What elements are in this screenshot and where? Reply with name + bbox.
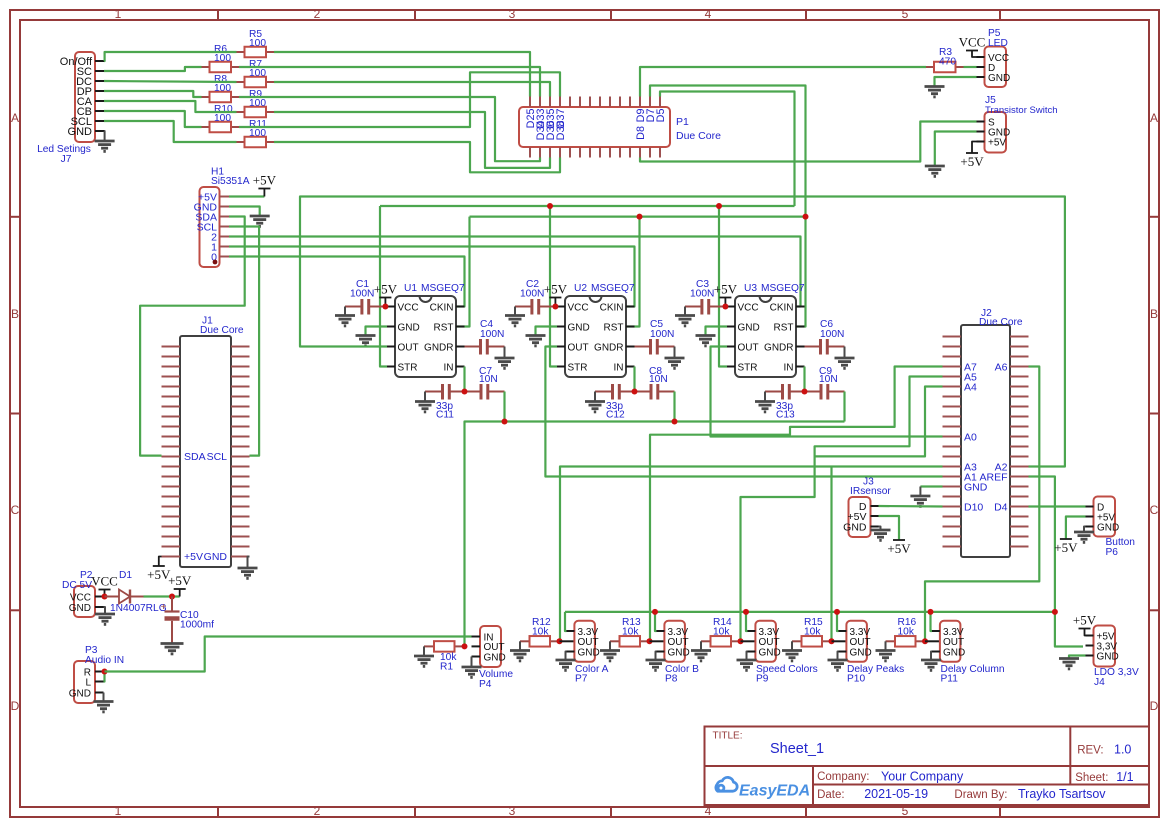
ground J7 GND bbox=[103, 131, 106, 141]
resistor R1 10k bbox=[424, 645, 434, 647]
wire CB to R10 bbox=[104, 111, 202, 127]
svg-text:RST: RST bbox=[604, 322, 624, 333]
wire STR net bbox=[380, 205, 795, 207]
wire R8 to P1 D34 bbox=[239, 97, 540, 161]
svg-text:Company:: Company: bbox=[817, 771, 869, 783]
svg-text:REV:: REV: bbox=[1077, 745, 1103, 757]
power flag +5V at J4 bbox=[1085, 629, 1086, 636]
resistor R11 100 bbox=[237, 141, 245, 143]
svg-text:+5V: +5V bbox=[988, 137, 1006, 148]
svg-text:R1: R1 bbox=[440, 662, 453, 673]
svg-text:Sheet_1: Sheet_1 bbox=[770, 741, 824, 757]
power flag +5V at J1 bbox=[159, 557, 162, 567]
svg-text:IN: IN bbox=[614, 362, 624, 373]
svg-text:U2: U2 bbox=[574, 283, 587, 294]
junction U3 IN coupling bbox=[802, 389, 808, 395]
connector P3 Audio IN bbox=[74, 661, 95, 703]
ground at J1 bbox=[248, 557, 250, 568]
svg-text:1: 1 bbox=[115, 804, 122, 818]
resistor R5 100 bbox=[237, 51, 245, 53]
svg-text:Due Core: Due Core bbox=[200, 325, 244, 336]
capacitor C2 100N bbox=[515, 306, 531, 308]
wire DC to R7 bbox=[104, 81, 237, 82]
ground at J4 bbox=[1059, 657, 1079, 660]
wire R10 to P1 D37 bbox=[239, 72, 560, 127]
junction P4 OUT bbox=[462, 643, 468, 649]
svg-text:B: B bbox=[11, 307, 19, 321]
svg-text:100: 100 bbox=[249, 68, 266, 79]
svg-text:STR: STR bbox=[568, 362, 588, 373]
svg-text:P8: P8 bbox=[665, 674, 678, 685]
svg-text:100N: 100N bbox=[690, 289, 714, 300]
svg-text:3: 3 bbox=[509, 804, 516, 818]
svg-text:Due Core: Due Core bbox=[979, 317, 1023, 328]
wire P1 D5 to STR net bbox=[660, 92, 795, 207]
wire H1 pin0 to U1 CKIN bbox=[229, 257, 465, 307]
wire P6 +5V to flag bbox=[1066, 517, 1086, 540]
connector J3 IRsensor bbox=[849, 497, 871, 537]
resistor R7 100 bbox=[237, 81, 245, 83]
junction U1 VCC bbox=[382, 304, 388, 310]
wire C8 to audio bus bbox=[673, 392, 675, 422]
svg-text:10k: 10k bbox=[898, 627, 915, 638]
wire SC to R6 bbox=[104, 67, 202, 71]
wire On/Off to R5 bbox=[104, 52, 237, 61]
svg-text:Date:: Date: bbox=[817, 789, 845, 801]
wire R11 to P1 D38 bbox=[274, 142, 560, 172]
resistor R15 10k bbox=[792, 640, 802, 642]
svg-text:100: 100 bbox=[214, 113, 231, 124]
resistor R8 100 bbox=[202, 96, 210, 98]
svg-text:GND: GND bbox=[1097, 651, 1119, 662]
junction P3 audio bbox=[102, 669, 108, 675]
wire P1 D9 to R3 bbox=[640, 67, 926, 97]
wire J3 GND to ground bbox=[879, 527, 881, 530]
connector J5 Transistor Switch bbox=[985, 112, 1007, 153]
resistor R6 100 bbox=[202, 66, 210, 68]
ground at J5 bbox=[925, 165, 945, 168]
connector P4 Volume bbox=[480, 626, 501, 667]
EasyEDA logo bbox=[716, 777, 737, 791]
svg-text:LED: LED bbox=[988, 38, 1008, 49]
wire H1 GND to ground bbox=[229, 207, 260, 216]
svg-text:100: 100 bbox=[249, 38, 266, 49]
svg-text:GND: GND bbox=[988, 73, 1010, 84]
connector P10 Delay Peaks bbox=[846, 621, 867, 662]
wire R3 to P5 D bbox=[964, 66, 977, 68]
svg-text:MSGEQ7: MSGEQ7 bbox=[591, 283, 635, 294]
svg-text:CKIN: CKIN bbox=[770, 302, 794, 313]
svg-text:IRsensor: IRsensor bbox=[850, 486, 891, 497]
wire R5 to P1 D25 bbox=[274, 52, 530, 97]
wire C7 to audio bus bbox=[503, 392, 505, 422]
ground at U3 GND bbox=[696, 334, 716, 337]
wire J2 A6 to P11 OUT bbox=[925, 367, 1039, 642]
wire P10 GND to ground bbox=[838, 652, 839, 660]
ground at C2 bbox=[514, 307, 516, 315]
wire U1 GND to ground bbox=[366, 327, 388, 335]
junction RST U3 bbox=[803, 214, 809, 220]
svg-text:GND: GND bbox=[738, 322, 760, 333]
junction bus C8 bbox=[672, 419, 678, 425]
svg-text:P6: P6 bbox=[1106, 547, 1119, 558]
connector P7 Color A bbox=[574, 621, 595, 662]
svg-text:1000mf: 1000mf bbox=[180, 620, 214, 631]
wire P9 3.3V to rail bbox=[746, 612, 748, 631]
svg-text:+5V: +5V bbox=[1073, 613, 1097, 628]
power flag +5V at H1 bbox=[263, 189, 265, 197]
ground at P10 bbox=[828, 659, 848, 662]
capacitor C6 100N bbox=[805, 346, 820, 348]
svg-text:C13: C13 bbox=[776, 410, 795, 421]
capacitor C10 1000mf bbox=[171, 597, 173, 612]
wire P1 D8 to J5 S bbox=[640, 122, 977, 162]
ground at P11 bbox=[921, 659, 941, 662]
wire P11 3.3V to rail bbox=[931, 612, 933, 631]
wire P8 GND to ground bbox=[656, 652, 657, 660]
ground at P5 bbox=[925, 85, 945, 88]
wire D1 to +5V node bbox=[144, 595, 180, 597]
wire J2 A4 line bbox=[815, 387, 943, 457]
svg-text:DC 5V: DC 5V bbox=[62, 580, 92, 591]
svg-text:+5V: +5V bbox=[184, 551, 203, 563]
resistor R14 10k bbox=[701, 640, 711, 642]
junction STR U2 bbox=[547, 203, 553, 209]
svg-text:D1: D1 bbox=[119, 570, 132, 581]
connector J2 Due Core bbox=[961, 325, 1010, 557]
svg-text:P1: P1 bbox=[676, 116, 689, 128]
svg-text:D5: D5 bbox=[655, 109, 667, 123]
ground at J3 bbox=[871, 529, 891, 532]
wire P3 GND to ground bbox=[103, 693, 105, 701]
capacitor C9 10N bbox=[805, 391, 821, 393]
svg-text:+5V: +5V bbox=[714, 282, 738, 297]
svg-text:3.3V: 3.3V bbox=[943, 627, 964, 638]
svg-text:Si5351A: Si5351A bbox=[211, 176, 250, 187]
wire J3 D to J2 D10 bbox=[879, 505, 943, 508]
svg-text:VCC: VCC bbox=[91, 574, 118, 589]
svg-text:100N: 100N bbox=[520, 289, 544, 300]
wire P5 GND to ground bbox=[935, 77, 977, 86]
svg-text:P7: P7 bbox=[575, 674, 588, 685]
capacitor C7 10N bbox=[465, 391, 481, 393]
svg-text:L: L bbox=[85, 677, 91, 688]
wire U2 GND to ground bbox=[536, 327, 558, 335]
svg-text:Transistor Switch: Transistor Switch bbox=[985, 105, 1058, 116]
wire P1 D7 to RST net bbox=[650, 86, 806, 217]
wire H1 SCL to J1 SCL bbox=[229, 227, 259, 456]
ground at C3 bbox=[684, 307, 686, 315]
svg-text:+5V: +5V bbox=[253, 173, 277, 188]
svg-text:GND: GND bbox=[759, 647, 781, 658]
op-chip U3 MSGEQ7 bbox=[735, 296, 796, 377]
connector P6 Button bbox=[1094, 497, 1116, 537]
connector P11 Delay Column bbox=[940, 621, 961, 662]
wire DP to R8 bbox=[104, 91, 202, 97]
ground at J2 GND bbox=[910, 495, 930, 498]
svg-text:Trayko Tsartsov: Trayko Tsartsov bbox=[1018, 787, 1106, 801]
wire CA to R9 bbox=[104, 101, 237, 112]
svg-text:OUT: OUT bbox=[568, 342, 589, 353]
svg-text:TITLE:: TITLE: bbox=[713, 731, 743, 742]
title block bbox=[705, 727, 1150, 806]
svg-text:+5V: +5V bbox=[374, 282, 398, 297]
ground at R12 bbox=[519, 641, 521, 649]
wire H1 +5V to flag bbox=[229, 195, 264, 197]
capacitor C12 33p bbox=[595, 391, 612, 393]
power flag +5V at C10 bbox=[179, 589, 181, 597]
svg-text:GND: GND bbox=[843, 521, 867, 533]
svg-text:OUT: OUT bbox=[738, 342, 759, 353]
svg-text:RST: RST bbox=[434, 322, 454, 333]
svg-text:+5V: +5V bbox=[544, 282, 568, 297]
svg-text:470: 470 bbox=[939, 57, 956, 68]
resistor R10 100 bbox=[202, 126, 210, 128]
svg-text:SDA: SDA bbox=[184, 451, 206, 463]
svg-text:10k: 10k bbox=[804, 627, 821, 638]
resistor R13 10k bbox=[610, 640, 620, 642]
svg-text:C: C bbox=[1150, 503, 1159, 517]
connector P9 Speed Colors bbox=[755, 621, 776, 662]
svg-text:3.3V: 3.3V bbox=[850, 627, 871, 638]
svg-text:J4: J4 bbox=[1094, 677, 1105, 688]
svg-text:GND: GND bbox=[68, 126, 93, 138]
power flag +5V at U2 VCC bbox=[554, 298, 556, 307]
svg-text:2: 2 bbox=[314, 804, 321, 818]
junction P9 OUT bbox=[738, 638, 744, 644]
ground at C6 bbox=[844, 347, 846, 358]
svg-text:MSGEQ7: MSGEQ7 bbox=[761, 283, 805, 294]
ground at R16 bbox=[885, 641, 887, 649]
power flag +5V at P6 bbox=[1060, 538, 1072, 540]
junction RST U2 bbox=[637, 214, 643, 220]
svg-text:GND: GND bbox=[578, 647, 600, 658]
junction P11 OUT bbox=[922, 638, 928, 644]
svg-text:AREF: AREF bbox=[979, 472, 1007, 484]
ground at R14 bbox=[700, 641, 702, 649]
svg-text:4: 4 bbox=[705, 7, 712, 21]
ground at P6 bbox=[1074, 531, 1094, 534]
wire J4 GND to ground bbox=[1069, 656, 1086, 658]
svg-text:+5V: +5V bbox=[960, 154, 984, 169]
svg-text:STR: STR bbox=[398, 362, 418, 373]
svg-text:EasyEDA: EasyEDA bbox=[739, 783, 810, 800]
junction P2 VCC bbox=[102, 594, 108, 600]
ground at C1 bbox=[344, 307, 346, 315]
wire U2 IN to coupling junction bbox=[633, 367, 635, 392]
svg-text:D: D bbox=[1150, 699, 1159, 713]
junction U2 VCC bbox=[552, 304, 558, 310]
svg-text:IN: IN bbox=[444, 362, 454, 373]
ground at C12 bbox=[594, 392, 596, 401]
resistor R16 10k bbox=[886, 640, 896, 642]
svg-text:VCC: VCC bbox=[398, 302, 419, 313]
svg-text:IN: IN bbox=[784, 362, 794, 373]
junction bus C7 bbox=[502, 419, 508, 425]
svg-text:10k: 10k bbox=[622, 627, 639, 638]
capacitor C13 33p bbox=[765, 391, 782, 393]
ground at H1 bbox=[250, 215, 270, 218]
svg-text:C11: C11 bbox=[436, 410, 454, 421]
svg-text:100: 100 bbox=[214, 83, 231, 94]
svg-text:C: C bbox=[11, 503, 20, 517]
capacitor C11 33p bbox=[425, 391, 442, 393]
pin-1 dot H1 bbox=[213, 260, 218, 265]
ground at C10 bbox=[161, 642, 184, 645]
svg-text:Audio IN: Audio IN bbox=[85, 655, 124, 666]
svg-text:4: 4 bbox=[705, 804, 712, 818]
ground at R1 bbox=[423, 646, 425, 655]
svg-text:GND: GND bbox=[943, 647, 965, 658]
connector P5 LED bbox=[985, 47, 1007, 88]
svg-text:P4: P4 bbox=[479, 679, 492, 690]
svg-text:GND: GND bbox=[850, 647, 872, 658]
wire J2 A7 to P8 OUT bbox=[650, 367, 943, 642]
connector H1 Si5351A bbox=[200, 187, 220, 267]
svg-text:D10: D10 bbox=[964, 502, 983, 514]
wire U3 IN to coupling junction bbox=[803, 367, 805, 392]
svg-text:A: A bbox=[1150, 111, 1158, 125]
svg-text:10k: 10k bbox=[532, 627, 549, 638]
wire P3 L to R bbox=[104, 672, 105, 682]
wire J2 D4 to P6 D bbox=[1029, 505, 1086, 507]
svg-text:VCC: VCC bbox=[70, 592, 91, 603]
wire P8 3.3V to rail bbox=[655, 612, 657, 631]
svg-text:D38: D38 bbox=[555, 121, 567, 141]
svg-text:GND: GND bbox=[398, 322, 420, 333]
resistor R9 100 bbox=[237, 111, 245, 113]
wire 3.3V rail bbox=[565, 611, 1055, 613]
op-chip U2 MSGEQ7 bbox=[565, 296, 626, 377]
junction U3 VCC bbox=[722, 304, 728, 310]
svg-text:GNDR: GNDR bbox=[424, 342, 453, 353]
svg-text:100: 100 bbox=[249, 98, 266, 109]
svg-text:10N: 10N bbox=[649, 374, 668, 385]
junction P7 OUT bbox=[557, 638, 563, 644]
svg-text:Due Core: Due Core bbox=[676, 130, 721, 142]
svg-text:B: B bbox=[1150, 307, 1158, 321]
wire H1 pin2 to U3 CKIN bbox=[229, 237, 801, 307]
ground at P2 bbox=[95, 613, 115, 616]
resistor R3 470 bbox=[926, 66, 934, 68]
svg-text:Drawn By:: Drawn By: bbox=[954, 789, 1007, 801]
svg-text:GND: GND bbox=[69, 603, 91, 614]
svg-text:100: 100 bbox=[214, 53, 231, 64]
power flag +5V at J3 bbox=[893, 539, 905, 541]
svg-text:100N: 100N bbox=[480, 329, 504, 340]
wire J2 A5 to P9 OUT bbox=[741, 377, 943, 642]
connector J1 Due Core bbox=[180, 336, 231, 567]
svg-text:D8: D8 bbox=[635, 126, 647, 140]
svg-text:5: 5 bbox=[902, 7, 909, 21]
junction C10 top bbox=[169, 594, 175, 600]
ground at P7 bbox=[556, 659, 576, 662]
svg-text:RST: RST bbox=[774, 322, 794, 333]
wire audio bus bbox=[465, 422, 845, 647]
svg-text:GND: GND bbox=[1097, 522, 1119, 533]
svg-text:+5V: +5V bbox=[168, 573, 192, 588]
ground at R13 bbox=[609, 641, 611, 649]
svg-text:CKIN: CKIN bbox=[600, 302, 624, 313]
ground at C13 bbox=[764, 392, 766, 401]
svg-text:STR: STR bbox=[738, 362, 758, 373]
svg-text:10N: 10N bbox=[819, 374, 838, 385]
connector J7 Led Setings bbox=[75, 52, 95, 142]
svg-text:J7: J7 bbox=[61, 154, 72, 165]
wire SCL to R11 bbox=[104, 121, 237, 142]
capacitor C5 100N bbox=[635, 346, 650, 348]
svg-text:D4: D4 bbox=[994, 502, 1008, 514]
wire J2 GND to ground bbox=[920, 485, 942, 487]
wire P2 GND to ground bbox=[104, 607, 106, 613]
power flag +5V at U3 VCC bbox=[724, 298, 726, 307]
svg-text:GND: GND bbox=[204, 551, 228, 563]
svg-text:Sheet:: Sheet: bbox=[1075, 772, 1108, 784]
wire RST net bbox=[470, 216, 806, 218]
svg-text:100N: 100N bbox=[650, 329, 674, 340]
connector P2 DC 5V bbox=[74, 586, 95, 617]
wire J5 GND to ground bbox=[935, 132, 977, 166]
svg-text:GND: GND bbox=[568, 322, 590, 333]
svg-text:+: + bbox=[161, 602, 167, 613]
capacitor C8 10N bbox=[635, 391, 651, 393]
svg-text:Your Company: Your Company bbox=[881, 770, 964, 784]
junction U2 IN coupling bbox=[632, 389, 638, 395]
wire P7 3.3V to rail bbox=[565, 612, 567, 631]
svg-text:+5V: +5V bbox=[887, 541, 911, 556]
svg-text:5: 5 bbox=[902, 804, 909, 818]
wire C9 to audio bus bbox=[843, 392, 845, 422]
wire H1 SDA to J1 SDA bbox=[140, 217, 245, 456]
wire P4 GND to ground bbox=[471, 657, 473, 667]
svg-text:SCL: SCL bbox=[207, 451, 228, 463]
capacitor C1 100N bbox=[345, 306, 361, 308]
svg-text:U3: U3 bbox=[744, 283, 757, 294]
ground at U2 GND bbox=[526, 334, 546, 337]
ground at P8 bbox=[646, 659, 666, 662]
ground at C5 bbox=[674, 347, 676, 358]
wire J2 A3 to P7 OUT bbox=[560, 467, 943, 642]
junction STR U3 bbox=[716, 203, 722, 209]
wire P7 GND to ground bbox=[566, 652, 567, 660]
svg-text:3.3V: 3.3V bbox=[759, 627, 780, 638]
svg-text:10N: 10N bbox=[479, 374, 498, 385]
svg-text:2021-05-19: 2021-05-19 bbox=[864, 787, 928, 801]
svg-text:VCC: VCC bbox=[568, 302, 589, 313]
ground at C11 bbox=[424, 392, 426, 401]
diode D1 1N4007RLG bbox=[105, 596, 120, 598]
svg-text:VCC: VCC bbox=[959, 35, 986, 50]
svg-text:+5V: +5V bbox=[1054, 540, 1078, 555]
wire P11 GND to ground bbox=[931, 652, 932, 660]
svg-text:3: 3 bbox=[509, 7, 516, 21]
junction P8 OUT bbox=[647, 638, 653, 644]
svg-text:100N: 100N bbox=[820, 329, 844, 340]
svg-text:GND: GND bbox=[69, 688, 91, 699]
wire H1 pin1 to U2 CKIN bbox=[229, 247, 635, 307]
svg-text:C12: C12 bbox=[606, 410, 625, 421]
wire U3 GND to ground bbox=[706, 327, 728, 335]
svg-text:GNDR: GNDR bbox=[764, 342, 793, 353]
svg-text:2: 2 bbox=[314, 7, 321, 21]
svg-text:3.3V: 3.3V bbox=[668, 627, 689, 638]
power flag +5V at J5 bbox=[972, 142, 977, 154]
connector P1 Due Core bbox=[519, 107, 670, 147]
svg-text:U1: U1 bbox=[404, 283, 417, 294]
svg-text:10k: 10k bbox=[713, 627, 730, 638]
svg-text:GND: GND bbox=[668, 647, 690, 658]
wire R7 to P1 D35 bbox=[274, 82, 550, 97]
